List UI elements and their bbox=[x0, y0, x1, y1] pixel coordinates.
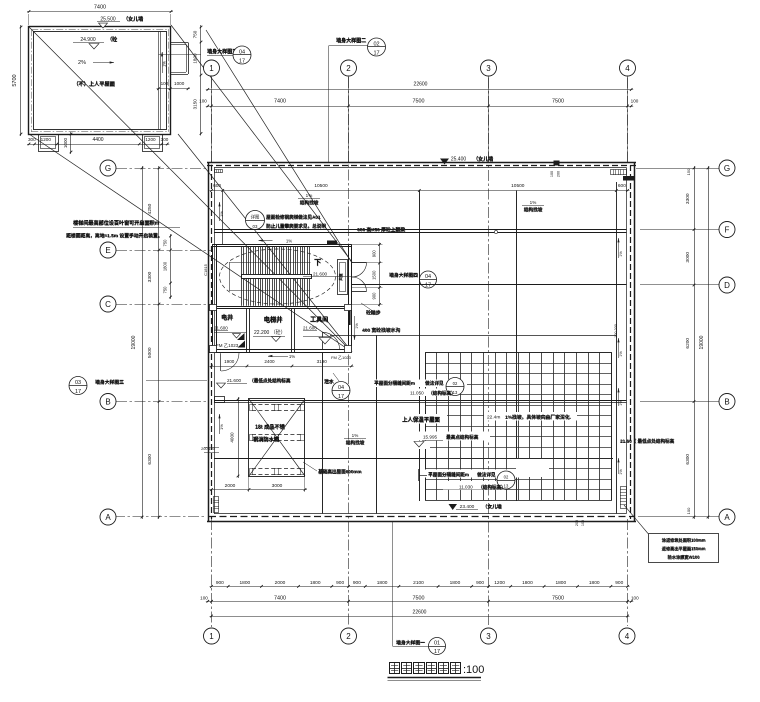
svg-text:1%: 1% bbox=[352, 433, 359, 438]
svg-text:（女儿墙: （女儿墙 bbox=[123, 16, 143, 23]
svg-text:F: F bbox=[725, 225, 730, 234]
svg-text:3: 3 bbox=[486, 64, 491, 73]
svg-text:5700: 5700 bbox=[12, 74, 18, 86]
svg-text:7400: 7400 bbox=[94, 5, 106, 11]
svg-text:150: 150 bbox=[686, 168, 691, 175]
svg-text:1800: 1800 bbox=[589, 580, 600, 586]
svg-text:1800: 1800 bbox=[240, 580, 251, 586]
svg-text:1%: 1% bbox=[619, 400, 623, 406]
svg-text:04: 04 bbox=[239, 50, 245, 56]
svg-text:22.4m: 22.4m bbox=[487, 415, 500, 421]
svg-text:7500: 7500 bbox=[552, 595, 564, 601]
svg-text:防止儿童攀爬要求见，总说明: 防止儿童攀爬要求见，总说明 bbox=[266, 223, 326, 230]
svg-text:10500: 10500 bbox=[314, 183, 328, 189]
svg-text:900: 900 bbox=[336, 580, 344, 586]
svg-text:750: 750 bbox=[163, 239, 168, 247]
svg-text:3190: 3190 bbox=[317, 359, 328, 364]
svg-text:10500: 10500 bbox=[511, 183, 525, 189]
svg-text:22600: 22600 bbox=[414, 81, 428, 87]
svg-text:2: 2 bbox=[346, 632, 351, 641]
svg-text:7400: 7400 bbox=[274, 595, 286, 601]
svg-text:1%: 1% bbox=[619, 469, 623, 475]
svg-text:（结构标高）: （结构标高） bbox=[478, 484, 506, 491]
svg-text:7500: 7500 bbox=[552, 99, 564, 105]
svg-text:400 宽砼找坡水沟: 400 宽砼找坡水沟 bbox=[362, 327, 400, 334]
svg-text:22600: 22600 bbox=[413, 609, 427, 615]
svg-text:11.050: 11.050 bbox=[410, 391, 424, 396]
svg-text:900: 900 bbox=[216, 580, 224, 586]
svg-text:11.030: 11.030 bbox=[459, 485, 473, 490]
svg-text:（女儿墙: （女儿墙 bbox=[473, 156, 493, 163]
svg-text:FM 乙1023: FM 乙1023 bbox=[216, 342, 239, 348]
svg-text:1200: 1200 bbox=[41, 137, 52, 142]
svg-text:做法详见: 做法详见 bbox=[476, 471, 496, 478]
svg-text:砼踏步: 砼踏步 bbox=[366, 309, 381, 316]
svg-text:墙身大样图二: 墙身大样图二 bbox=[336, 37, 366, 44]
svg-text:100: 100 bbox=[631, 99, 639, 104]
svg-text::100: :100 bbox=[463, 664, 484, 676]
svg-text:1: 1 bbox=[209, 64, 214, 73]
svg-text:17: 17 bbox=[425, 283, 431, 289]
svg-text:平屋面分隔缝间距m: 平屋面分隔缝间距m bbox=[428, 471, 469, 478]
svg-text:100: 100 bbox=[686, 507, 691, 514]
svg-text:C1815: C1815 bbox=[203, 263, 208, 276]
svg-text:工具间: 工具间 bbox=[310, 316, 328, 324]
svg-text:（不）上人平屋面: （不）上人平屋面 bbox=[74, 80, 116, 88]
svg-text:风道: 风道 bbox=[338, 273, 343, 281]
svg-text:03: 03 bbox=[253, 224, 258, 229]
svg-text:（最低点处结构标高: （最低点处结构标高 bbox=[249, 377, 291, 384]
svg-text:900: 900 bbox=[353, 580, 361, 586]
svg-text:02: 02 bbox=[373, 42, 379, 48]
svg-text:23.400: 23.400 bbox=[460, 504, 475, 510]
svg-text:G: G bbox=[105, 164, 111, 173]
svg-text:02: 02 bbox=[504, 475, 509, 480]
svg-text:（女儿墙: （女儿墙 bbox=[483, 503, 502, 510]
svg-text:1%: 1% bbox=[286, 239, 292, 244]
svg-text:1%: 1% bbox=[306, 193, 313, 198]
svg-text:电梯井: 电梯井 bbox=[264, 315, 284, 324]
svg-text:1200: 1200 bbox=[145, 137, 156, 142]
svg-text:21.600: 21.600 bbox=[227, 378, 241, 383]
svg-text:墙身大样图三: 墙身大样图三 bbox=[95, 379, 124, 386]
svg-text:2100: 2100 bbox=[413, 580, 424, 586]
svg-text:屋面检修钢爬梯做法见A01: 屋面检修钢爬梯做法见A01 bbox=[266, 214, 321, 221]
svg-text:防水涂膜宽W100: 防水涂膜宽W100 bbox=[668, 554, 701, 561]
svg-text:1: 1 bbox=[209, 632, 214, 641]
svg-text:（砼: （砼 bbox=[107, 36, 118, 43]
svg-text:A: A bbox=[724, 513, 730, 522]
svg-text:1800: 1800 bbox=[450, 580, 461, 586]
svg-text:7400: 7400 bbox=[274, 99, 286, 105]
svg-text:1%: 1% bbox=[289, 354, 295, 359]
svg-text:750: 750 bbox=[163, 286, 168, 294]
svg-text:结构找坡: 结构找坡 bbox=[300, 199, 319, 206]
svg-text:1%: 1% bbox=[619, 351, 623, 357]
svg-text:3: 3 bbox=[486, 632, 491, 641]
svg-text:4400: 4400 bbox=[92, 137, 103, 143]
svg-text:100: 100 bbox=[199, 99, 207, 104]
svg-text:1000: 1000 bbox=[63, 137, 68, 148]
svg-text:200: 200 bbox=[575, 520, 579, 526]
svg-text:1800: 1800 bbox=[310, 580, 321, 586]
svg-text:4: 4 bbox=[625, 64, 630, 73]
svg-text:02: 02 bbox=[453, 381, 458, 386]
svg-text:900: 900 bbox=[615, 580, 623, 586]
svg-text:B: B bbox=[105, 397, 110, 406]
svg-text:涂返修筑处面积100mm: 涂返修筑处面积100mm bbox=[662, 537, 706, 544]
svg-text:A: A bbox=[105, 513, 111, 522]
svg-text:墙身大样图四: 墙身大样图四 bbox=[389, 272, 418, 279]
svg-text:1%: 1% bbox=[355, 323, 359, 329]
svg-text:3000: 3000 bbox=[272, 483, 283, 489]
svg-text:24.900: 24.900 bbox=[80, 37, 96, 43]
svg-text:4250: 4250 bbox=[147, 203, 153, 214]
svg-text:100: 100 bbox=[581, 520, 585, 526]
svg-text:下: 下 bbox=[314, 259, 321, 267]
svg-text:1%: 1% bbox=[162, 61, 167, 67]
svg-text:（结构标高）: （结构标高） bbox=[428, 390, 456, 397]
svg-text:电井: 电井 bbox=[221, 314, 233, 322]
svg-text:17: 17 bbox=[75, 389, 81, 395]
svg-text:上人保温平屋面: 上人保温平屋面 bbox=[402, 416, 440, 424]
svg-text:100: 100 bbox=[550, 171, 554, 177]
svg-text:900: 900 bbox=[372, 292, 377, 300]
svg-text:300: 300 bbox=[161, 137, 169, 142]
svg-text:17: 17 bbox=[373, 50, 379, 56]
svg-text:100: 100 bbox=[631, 595, 639, 600]
svg-text:D: D bbox=[724, 281, 730, 290]
svg-text:结构找坡: 结构找坡 bbox=[524, 206, 543, 213]
svg-text:900: 900 bbox=[476, 580, 484, 586]
svg-text:墙身大样图一: 墙身大样图一 bbox=[396, 639, 425, 646]
svg-text:900: 900 bbox=[372, 250, 377, 258]
svg-text:21.600: 21.600 bbox=[303, 326, 317, 331]
svg-text:01: 01 bbox=[434, 641, 440, 647]
svg-text:1500: 1500 bbox=[372, 270, 377, 280]
svg-text:600: 600 bbox=[213, 183, 221, 189]
svg-text:详图: 详图 bbox=[251, 214, 260, 221]
svg-text:4000: 4000 bbox=[230, 432, 235, 443]
svg-text:1200: 1200 bbox=[494, 580, 505, 586]
svg-text:600: 600 bbox=[618, 183, 626, 189]
svg-text:G: G bbox=[724, 164, 730, 173]
svg-text:钢消防水箱: 钢消防水箱 bbox=[253, 435, 280, 443]
svg-text:泄水: 泄水 bbox=[324, 378, 334, 385]
svg-text:21.60（ 最低点处结构标高: 21.60（ 最低点处结构标高 bbox=[620, 438, 675, 445]
svg-text:结构找坡: 结构找坡 bbox=[346, 439, 365, 446]
svg-text:最高点结构标高: 最高点结构标高 bbox=[446, 434, 479, 441]
svg-text:6300: 6300 bbox=[685, 454, 691, 465]
svg-text:100: 100 bbox=[161, 81, 169, 86]
svg-text:6300: 6300 bbox=[147, 454, 153, 465]
svg-text:E: E bbox=[105, 246, 110, 255]
svg-text:1800: 1800 bbox=[193, 53, 198, 64]
svg-text:1800: 1800 bbox=[522, 580, 533, 586]
svg-text:21.600: 21.600 bbox=[313, 272, 327, 277]
svg-text:3300: 3300 bbox=[685, 193, 691, 204]
svg-text:3150: 3150 bbox=[193, 99, 198, 110]
svg-text:100 200: 100 200 bbox=[614, 324, 618, 338]
svg-text:基础高出屋面600mm: 基础高出屋面600mm bbox=[317, 468, 361, 475]
svg-text:1%: 1% bbox=[219, 211, 224, 217]
svg-text:1800: 1800 bbox=[377, 580, 388, 586]
svg-text:FM 乙1023: FM 乙1023 bbox=[331, 354, 352, 360]
svg-text:7500: 7500 bbox=[413, 595, 425, 601]
svg-text:1%: 1% bbox=[219, 424, 224, 430]
svg-text:1000: 1000 bbox=[174, 81, 185, 86]
svg-text:B: B bbox=[724, 397, 729, 406]
svg-text:19000: 19000 bbox=[131, 335, 137, 349]
svg-text:1%找坡，具体坡向由厂家深化.: 1%找坡，具体坡向由厂家深化. bbox=[505, 414, 571, 421]
svg-text:1%: 1% bbox=[530, 200, 537, 205]
svg-text:楼梯间最高部位设百叶窗可开启面积m: 楼梯间最高部位设百叶窗可开启面积m bbox=[73, 220, 160, 227]
svg-text:17: 17 bbox=[239, 58, 245, 64]
svg-text:2400: 2400 bbox=[264, 359, 275, 364]
svg-text:22.200 （砼）: 22.200 （砼） bbox=[254, 329, 286, 336]
svg-text:750: 750 bbox=[193, 30, 198, 38]
svg-text:平屋面分隔缝间距m: 平屋面分隔缝间距m bbox=[374, 380, 415, 387]
svg-text:200: 200 bbox=[557, 171, 561, 177]
svg-text:17: 17 bbox=[338, 394, 344, 400]
svg-text:2000: 2000 bbox=[275, 580, 286, 586]
svg-text:18t 成品不锈: 18t 成品不锈 bbox=[255, 423, 286, 431]
svg-text:C: C bbox=[105, 300, 111, 309]
svg-text:19000: 19000 bbox=[699, 335, 705, 349]
svg-text:返修高出平屋面150mm: 返修高出平屋面150mm bbox=[662, 545, 706, 552]
svg-text:300: 300 bbox=[28, 137, 36, 142]
svg-text:2%: 2% bbox=[78, 60, 86, 66]
svg-text:03: 03 bbox=[75, 380, 81, 386]
svg-text:1900: 1900 bbox=[224, 359, 235, 364]
svg-text:6200: 6200 bbox=[685, 338, 691, 349]
svg-text:25.400: 25.400 bbox=[451, 157, 467, 163]
svg-text:3300: 3300 bbox=[147, 271, 153, 282]
svg-text:做法详见: 做法详见 bbox=[424, 380, 444, 387]
svg-text:距楼面距离，离地≈1.5m 设置手动开启装置。: 距楼面距离，离地≈1.5m 设置手动开启装置。 bbox=[66, 232, 162, 239]
svg-text:04: 04 bbox=[338, 385, 344, 391]
svg-text:1800: 1800 bbox=[555, 580, 566, 586]
svg-text:1%: 1% bbox=[619, 251, 623, 257]
svg-text:17: 17 bbox=[434, 649, 440, 655]
svg-text:5000: 5000 bbox=[147, 347, 153, 358]
svg-text:1800: 1800 bbox=[163, 261, 168, 271]
svg-text:21.600: 21.600 bbox=[214, 326, 228, 331]
svg-text:3000: 3000 bbox=[685, 252, 691, 263]
svg-text:04: 04 bbox=[425, 274, 431, 280]
svg-text:4: 4 bbox=[625, 632, 630, 641]
svg-text:2000: 2000 bbox=[225, 483, 236, 489]
svg-text:7500: 7500 bbox=[413, 99, 425, 105]
svg-text:2: 2 bbox=[346, 64, 351, 73]
svg-text:15.995: 15.995 bbox=[423, 435, 437, 440]
svg-text:100: 100 bbox=[200, 595, 208, 600]
